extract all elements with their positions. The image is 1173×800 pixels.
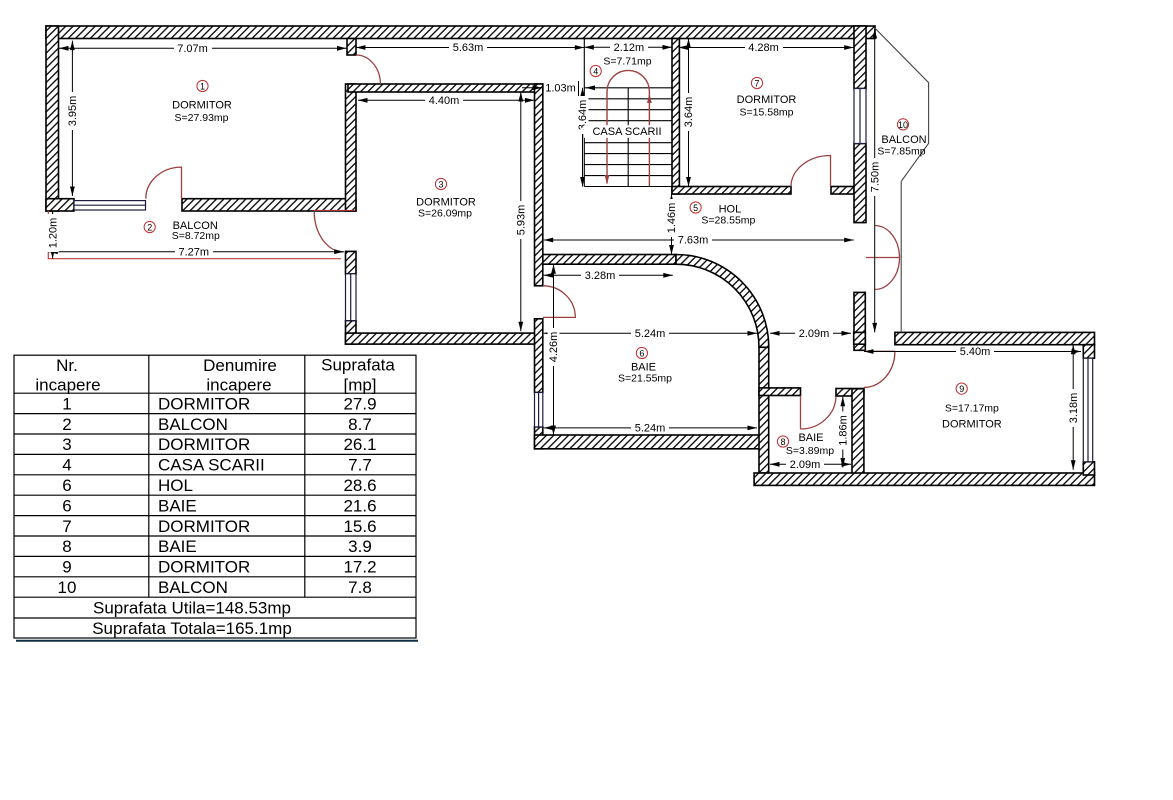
wall room7 right upper — [854, 26, 866, 89]
svg-text:S=8.72mp: S=8.72mp — [172, 230, 220, 242]
svg-text:7.07m: 7.07m — [177, 43, 208, 55]
svg-text:Denumire: Denumire — [203, 356, 277, 375]
svg-text:S=7.71mp: S=7.71mp — [603, 56, 651, 68]
window W1 room1 bottom — [74, 201, 146, 210]
svg-text:1: 1 — [200, 82, 205, 92]
svg-text:15.6: 15.6 — [343, 517, 376, 536]
stairs divider — [627, 88, 629, 187]
svg-text:DORMITOR: DORMITOR — [942, 419, 1002, 431]
svg-text:10: 10 — [58, 578, 77, 597]
wall room1 bottom left segment — [46, 199, 74, 211]
svg-text:3.9: 3.9 — [348, 537, 372, 556]
svg-text:Nr.: Nr. — [56, 356, 78, 375]
svg-text:DORMITOR: DORMITOR — [158, 558, 250, 577]
wall baie8 top left — [759, 388, 801, 396]
dim line 3.64m room7 — [688, 39, 690, 187]
wall room9 right corner bottom — [1083, 462, 1094, 475]
wall stairs-room7 partition — [672, 39, 679, 195]
svg-text:HOL: HOL — [158, 476, 193, 495]
dim line 7.27m — [48, 251, 343, 253]
svg-text:CASA SCARII: CASA SCARII — [592, 126, 661, 138]
wall room9 top left bit — [854, 332, 866, 344]
svg-text:CASA SCARII: CASA SCARII — [158, 456, 265, 475]
svg-text:2: 2 — [62, 415, 71, 434]
dim line 2.09m mid — [770, 332, 851, 334]
dim line 4.28m — [679, 47, 854, 49]
wall baie6 bottom — [535, 435, 769, 449]
svg-text:9: 9 — [62, 558, 71, 577]
svg-text:4: 4 — [593, 67, 598, 77]
svg-text:4.28m: 4.28m — [748, 42, 779, 54]
svg-text:6: 6 — [62, 476, 71, 495]
svg-text:S=21.55mp: S=21.55mp — [618, 373, 672, 385]
dim line 4.40m — [358, 99, 535, 101]
svg-text:1.03m: 1.03m — [545, 83, 576, 95]
dim line 5.24m bottom — [544, 427, 757, 429]
svg-text:DORMITOR: DORMITOR — [158, 517, 250, 536]
svg-text:DORMITOR: DORMITOR — [158, 435, 250, 454]
wall room3 right lower — [535, 319, 543, 393]
svg-text:5.93m: 5.93m — [516, 205, 528, 236]
wall stub hol right — [854, 292, 865, 350]
balcon10 outline — [875, 28, 929, 333]
svg-text:DORMITOR: DORMITOR — [172, 100, 232, 112]
door D1 room1-balcon2 arc — [146, 167, 182, 199]
svg-text:10: 10 — [898, 120, 908, 130]
svg-text:7.7: 7.7 — [348, 456, 372, 475]
dim line 1.86m — [842, 397, 844, 468]
svg-text:S=3.89mp: S=3.89mp — [786, 445, 834, 457]
svg-text:Suprafata: Suprafata — [321, 356, 395, 375]
svg-text:S=7.85mp: S=7.85mp — [877, 146, 925, 158]
dim labels — [47, 42, 1080, 471]
wall room9 right corner top — [1083, 345, 1094, 359]
svg-text:4.26m: 4.26m — [548, 332, 560, 363]
svg-text:3: 3 — [438, 180, 443, 190]
svg-text:Suprafata Totala=165.1mp: Suprafata Totala=165.1mp — [92, 619, 292, 638]
room labels — [172, 56, 1002, 458]
svg-text:3: 3 — [62, 435, 71, 454]
svg-text:incapere: incapere — [206, 376, 271, 395]
svg-text:21.6: 21.6 — [343, 496, 376, 515]
svg-text:7.27m: 7.27m — [179, 246, 210, 258]
svg-text:6: 6 — [639, 349, 644, 359]
dim line 3.28m — [544, 274, 673, 276]
wall hol top segment — [672, 187, 791, 195]
door D5 room7 arc — [791, 156, 831, 187]
dim line 1.03m — [522, 87, 542, 89]
wall room1-room3 partition — [346, 84, 357, 211]
window W3 baie6 left — [535, 393, 543, 427]
window W5 room9 right — [1083, 358, 1092, 462]
dim line 7.50m — [874, 29, 876, 332]
stairs up-down red arrow — [607, 70, 649, 186]
wall left exterior — [46, 26, 59, 211]
wall top exterior — [46, 26, 875, 39]
svg-text:3.95m: 3.95m — [67, 96, 79, 127]
window W4 room7 right — [854, 89, 866, 144]
svg-text:3.18m: 3.18m — [1068, 393, 1080, 424]
balcon2 red outline — [48, 211, 341, 259]
svg-text:7.50m: 7.50m — [869, 162, 881, 193]
dim line 5.63m — [356, 47, 584, 49]
svg-text:27.9: 27.9 — [343, 394, 376, 413]
door D2 room1-corridor arc — [356, 55, 381, 84]
svg-text:3.64m: 3.64m — [683, 97, 695, 128]
svg-text:2.12m: 2.12m — [614, 42, 645, 54]
door D6 hol-balcon10 arc — [866, 226, 900, 290]
dim line 5.40m — [864, 351, 1081, 353]
wall baie8-room9 partition — [852, 389, 864, 475]
dim line 2.12m — [584, 46, 672, 48]
dim line 1.46m — [671, 194, 673, 255]
svg-text:17.2: 17.2 — [343, 558, 376, 577]
svg-text:2.09m: 2.09m — [790, 459, 821, 471]
svg-text:2.09m: 2.09m — [799, 328, 830, 340]
wall hol top stub — [831, 187, 854, 195]
door D4 room3-baie6 arc — [543, 286, 575, 318]
svg-text:[mp]: [mp] — [343, 376, 376, 395]
wall corner below window W3 — [535, 427, 543, 449]
svg-text:7.8: 7.8 — [348, 578, 372, 597]
dim line 3.64m stairs — [582, 88, 584, 187]
wall below window W2 — [346, 321, 357, 345]
arrows vertical dims — [70, 41, 75, 51]
dim line 1.20m — [52, 211, 54, 259]
dim line 7.07m — [59, 47, 347, 49]
room number circles — [144, 65, 967, 447]
svg-text:5.24m: 5.24m — [635, 423, 666, 435]
svg-text:DORMITOR: DORMITOR — [158, 394, 250, 413]
svg-text:BAIE: BAIE — [158, 496, 197, 515]
dim line 3.95m — [71, 41, 73, 196]
svg-text:7.63m: 7.63m — [678, 235, 709, 247]
svg-text:DORMITOR: DORMITOR — [737, 94, 797, 106]
area table — [14, 355, 418, 641]
svg-text:28.6: 28.6 — [343, 476, 376, 495]
svg-text:S=28.55mp: S=28.55mp — [701, 215, 755, 227]
svg-text:1.20m: 1.20m — [47, 218, 59, 249]
wall corridor right vertical — [759, 347, 769, 473]
wall room3 bottom — [346, 333, 536, 344]
svg-text:5.63m: 5.63m — [453, 42, 484, 54]
svg-text:6: 6 — [62, 496, 71, 515]
svg-text:BAIE: BAIE — [798, 432, 823, 444]
dim line 5.93m — [520, 92, 522, 331]
door D7 room9 arc — [864, 351, 895, 387]
svg-text:3.28m: 3.28m — [585, 270, 616, 282]
dim text backgrounds — [47, 41, 1080, 470]
wall baie6 top — [543, 255, 676, 265]
stairs box — [584, 39, 672, 187]
wall room9 top main — [895, 332, 1095, 344]
svg-text:8: 8 — [780, 437, 785, 447]
wall curved quarter — [676, 255, 769, 348]
svg-text:7: 7 — [62, 517, 71, 536]
svg-text:1.46m: 1.46m — [666, 203, 678, 234]
wall stub above door room1 — [347, 39, 356, 56]
svg-text:S=15.58mp: S=15.58mp — [740, 107, 794, 119]
svg-text:5: 5 — [693, 203, 698, 213]
wall room7 right lower — [854, 144, 866, 223]
svg-text:S=17.17mp: S=17.17mp — [945, 403, 999, 415]
svg-text:8.7: 8.7 — [348, 415, 372, 434]
svg-text:S=26.09mp: S=26.09mp — [418, 208, 472, 220]
svg-text:Suprafata Utila=148.53mp: Suprafata Utila=148.53mp — [93, 599, 291, 618]
door D8 baie8 arc — [801, 396, 837, 430]
svg-text:4.40m: 4.40m — [429, 95, 460, 107]
dim line 5.24m top — [544, 332, 757, 334]
wall bottom band — [754, 473, 1094, 485]
wall room1 bottom right segment — [182, 199, 356, 211]
dim line 4.26m — [553, 264, 555, 435]
red threshold line room1 wall bottom — [314, 209, 355, 211]
svg-text:S=27.93mp: S=27.93mp — [175, 112, 229, 124]
wall room3 top — [348, 84, 543, 92]
svg-text:BALCON: BALCON — [158, 415, 228, 434]
stairs top tick arrow — [586, 85, 596, 90]
svg-text:7: 7 — [754, 79, 759, 89]
svg-text:incapere: incapere — [35, 376, 100, 395]
svg-text:1: 1 — [62, 394, 71, 413]
svg-text:8: 8 — [62, 537, 71, 556]
svg-text:BALCON: BALCON — [881, 134, 926, 146]
svg-text:BAIE: BAIE — [158, 537, 197, 556]
wall stub balcon2 right — [346, 251, 357, 274]
wall baie8 top right stub — [836, 389, 864, 397]
svg-text:BALCON: BALCON — [158, 578, 228, 597]
window W2 room3 left — [346, 274, 357, 321]
svg-text:26.1: 26.1 — [343, 435, 376, 454]
dim line 3.18m — [1072, 345, 1074, 470]
wall room3 right upper — [535, 84, 543, 286]
svg-text:2: 2 — [147, 223, 152, 233]
svg-text:5.24m: 5.24m — [635, 328, 666, 340]
dim line 7.63m — [544, 239, 854, 241]
arrows horizontal dims — [59, 46, 69, 51]
svg-text:4: 4 — [62, 456, 71, 475]
svg-text:5.40m: 5.40m — [960, 346, 991, 358]
svg-text:1.86m: 1.86m — [838, 415, 850, 446]
svg-text:9: 9 — [959, 384, 964, 394]
door D3 balcon2-room3 arc — [314, 211, 344, 252]
dim line 2.09m baie8 — [770, 463, 851, 465]
